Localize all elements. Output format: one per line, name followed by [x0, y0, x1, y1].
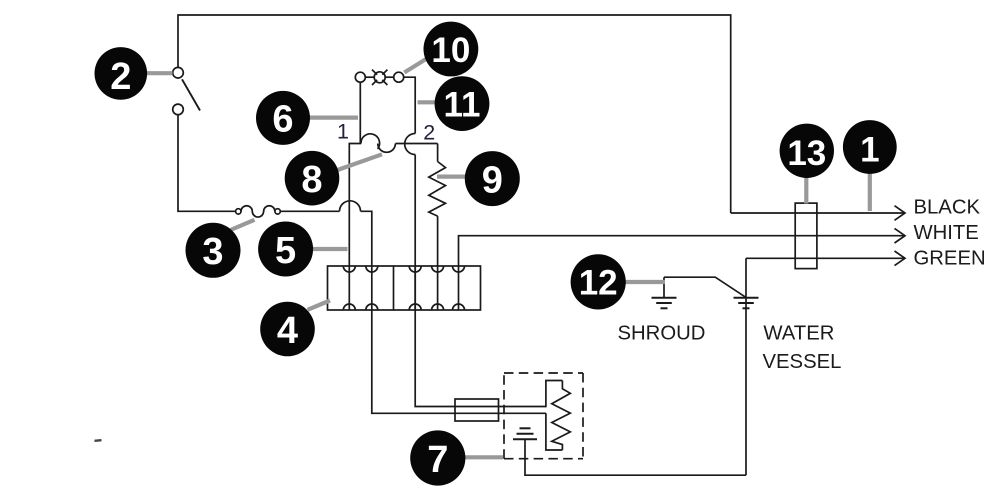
leader line for callout 5	[313, 247, 348, 251]
terminal clamp bottom c	[409, 304, 421, 310]
svg-text:WATER: WATER	[763, 323, 834, 345]
terminal clamp bottom d	[432, 304, 444, 310]
terminal clamp bottom a	[343, 304, 355, 310]
indicator lamp stub left-middle	[365, 76, 374, 78]
indicator lamp right terminal	[394, 72, 404, 82]
svg-text:2: 2	[110, 56, 131, 98]
water vessel ground line middle	[738, 302, 754, 304]
svg-text:1: 1	[337, 119, 349, 143]
terminal block conductor b	[371, 266, 373, 310]
svg-text:5: 5	[275, 230, 296, 272]
leader line for callout 6	[310, 115, 359, 119]
wire lamp left terminal down to contact 1 jog	[349, 82, 360, 266]
callout 5 circle	[258, 222, 313, 277]
callout 9 circle	[465, 151, 520, 206]
resistor zigzag	[429, 162, 446, 217]
white branch wire from terminal block	[459, 236, 906, 266]
leader line for callout 2	[147, 58, 870, 458]
resistor (callout 9) top lead	[437, 144, 439, 162]
dashed enclosure top edge	[504, 372, 583, 374]
indicator lamp left terminal	[355, 72, 365, 82]
stray mark bottom left	[95, 439, 102, 442]
dashed enclosure around heater assembly: left edge	[503, 373, 505, 459]
callout 7 circle	[410, 430, 465, 485]
callout 2 circle	[95, 47, 148, 100]
leader line for callout 4	[308, 301, 331, 310]
heater element zigzag	[552, 381, 571, 451]
leader line for callout 12	[626, 280, 666, 284]
shroud ground line middle	[656, 302, 672, 304]
dashed enclosure bottom edge	[504, 458, 583, 460]
shroud ground line bottom	[661, 307, 668, 309]
terminal clamp top a	[343, 266, 355, 272]
terminal block conductor d	[437, 266, 439, 310]
wire between contacts	[395, 143, 437, 145]
wire from switch down to thermal fuse	[178, 115, 236, 212]
black live wire	[731, 212, 905, 214]
terminal clamp top c	[409, 266, 421, 272]
svg-text:9: 9	[482, 159, 503, 201]
terminal clamp top e	[453, 266, 465, 272]
svg-text:2: 2	[423, 121, 435, 145]
leader line for callout 7	[465, 455, 503, 459]
leader line for callout 13	[804, 177, 808, 204]
indicator lamp stub middle-right	[385, 76, 393, 78]
igniter stem and bottom return wire	[525, 439, 746, 475]
water vessel ground line bottom	[743, 307, 750, 309]
callout 12 circle	[571, 254, 626, 309]
svg-text:13: 13	[787, 134, 826, 173]
svg-text:1: 1	[860, 131, 879, 170]
wire from fuse to hop	[280, 210, 339, 212]
svg-text:7: 7	[427, 439, 448, 481]
svg-text:6: 6	[272, 99, 293, 141]
green arrowhead	[895, 251, 906, 266]
heater upper lead	[546, 381, 563, 408]
svg-text:WHITE: WHITE	[914, 222, 979, 244]
black wire arrowhead	[895, 206, 906, 221]
leader line for callout 8	[336, 154, 382, 170]
thermostat contact 1 arc	[361, 134, 380, 149]
callout 8 circle	[285, 151, 340, 206]
switch S (callout 2): upper contact	[173, 67, 184, 78]
callout 1 circle	[843, 120, 897, 174]
resistor bottom lead into terminal block	[437, 216, 439, 266]
callout 6 circle	[256, 91, 310, 145]
callout 3 circle	[186, 223, 241, 278]
water vessel ground line top	[734, 297, 759, 299]
terminal clamp bottom b	[366, 304, 378, 310]
dashed enclosure right edge	[582, 373, 584, 459]
terminal block conductor a	[348, 266, 350, 310]
shroud ground line top	[652, 297, 677, 299]
thermal fuse right terminal circle	[275, 209, 280, 214]
leader line for callout 1	[868, 173, 872, 211]
igniter electrode line bottom	[513, 438, 537, 440]
switch S blade	[182, 79, 200, 110]
thermal fuse (callout 3): left terminal circle	[236, 209, 241, 214]
wire top bus from switch to right-side drop	[178, 15, 731, 213]
indicator lamp ray upper-right	[382, 70, 387, 75]
leader line for callout 10	[404, 58, 428, 73]
inline fuse rectangle near heater	[455, 399, 499, 421]
chassis link wire from shroud to water vessel ground	[664, 277, 746, 297]
terminal block conductor c	[414, 266, 416, 310]
callout 10 circle	[424, 22, 479, 77]
leader line for callout 3	[231, 220, 255, 230]
indicator lamp ray lower-right	[382, 80, 387, 85]
connector strain relief (callout 13)	[795, 203, 817, 269]
terminal block conductor e	[458, 266, 460, 310]
svg-text:8: 8	[301, 159, 322, 201]
svg-text:11: 11	[444, 85, 481, 124]
svg-text:VESSEL: VESSEL	[763, 351, 842, 373]
terminal block (callout 4) body	[328, 266, 481, 310]
thermostat contact 2 arc	[405, 134, 416, 155]
svg-text:3: 3	[202, 231, 223, 273]
thermal fuse wave element	[241, 206, 275, 217]
terminal clamp top b	[366, 266, 378, 272]
shroud ground stem	[663, 277, 665, 298]
thermostat moving contact arc between 1 and 2	[378, 144, 396, 153]
svg-text:4: 4	[277, 310, 298, 352]
water vessel riser wire	[745, 258, 747, 475]
leader line for callout 9	[437, 175, 466, 179]
indicator lamp (callout 10) bulb circle	[374, 72, 385, 83]
terminal block divider	[393, 266, 395, 310]
callout 13 circle	[780, 124, 834, 178]
wire from block bottom to heater lower feed	[372, 310, 546, 413]
callout 4 circle	[260, 302, 315, 357]
switch S lower contact	[173, 104, 184, 115]
indicator lamp ray upper-left	[372, 70, 377, 75]
terminal clamp top d	[432, 266, 444, 272]
svg-text:SHROUD: SHROUD	[618, 323, 706, 345]
heater lower lead	[546, 413, 563, 450]
svg-text:10: 10	[431, 31, 470, 70]
indicator lamp ray lower-left	[372, 80, 377, 85]
white arrowhead	[895, 228, 906, 243]
wire hop over vertical conductor	[340, 201, 361, 212]
callout 11 circle	[435, 76, 490, 131]
svg-text:BLACK: BLACK	[914, 197, 981, 219]
green earth wire with arrow	[746, 257, 905, 259]
svg-text:GREEN: GREEN	[914, 248, 986, 270]
wire contact 2 down through terminal block to heater upper feed	[415, 155, 546, 407]
wire from hop down into terminal block	[361, 211, 372, 266]
leader line for callout 11	[418, 100, 437, 104]
wire lamp right to contact 2 drop	[404, 77, 416, 133]
igniter electrode line top	[520, 427, 531, 429]
svg-text:12: 12	[579, 264, 618, 303]
terminal clamp bottom e	[453, 304, 465, 310]
igniter electrode line middle	[517, 433, 534, 435]
